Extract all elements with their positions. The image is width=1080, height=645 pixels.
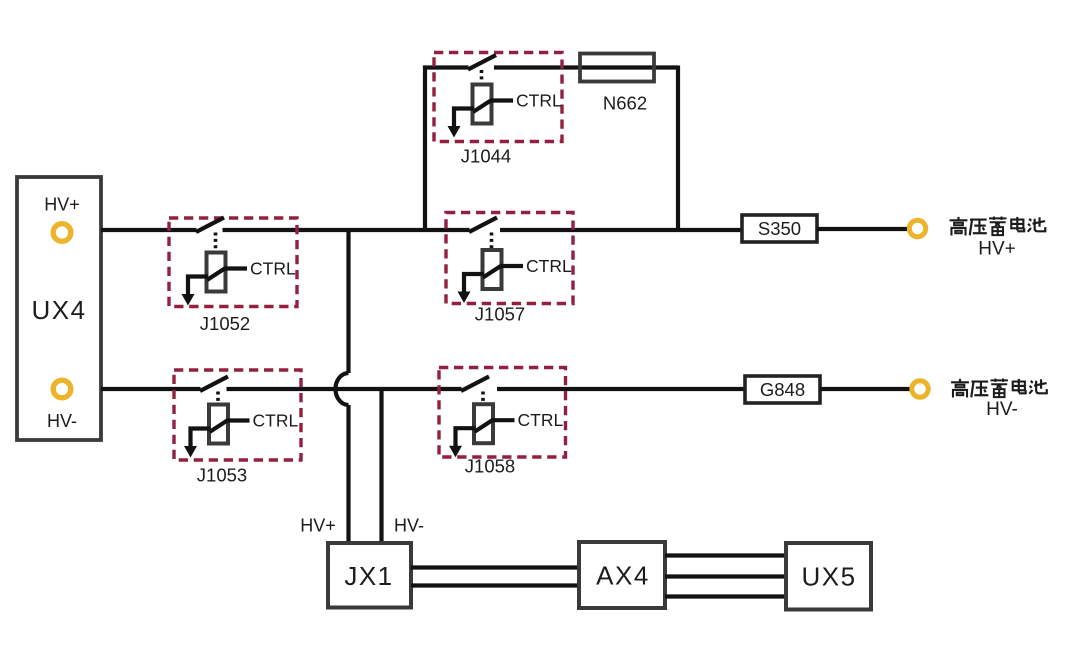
net label battery HV+ (Chinese: high-voltage battery): [950, 217, 1046, 236]
actuator dotted link J1052: [214, 233, 218, 252]
coil diagonal J1044: [473, 100, 492, 112]
CTRL pin wire J1058: [493, 418, 515, 422]
svg-text:HV+: HV+: [300, 516, 336, 536]
wire HV- bus: J1058 to G848: [497, 387, 745, 391]
CTRL pin wire J1052: [225, 266, 247, 270]
actuator dotted link J1058: [481, 392, 485, 404]
wire precharge branch left vertical (node at HV+ bus x=425): [425, 68, 469, 231]
connector UX4: [17, 177, 101, 440]
svg-text:CTRL: CTRL: [518, 410, 564, 430]
actuator dotted link J1057: [490, 233, 494, 250]
wire hop (crossover, no connection) over HV- bus: [336, 373, 349, 405]
dashed outline J1044: [434, 53, 562, 142]
switch blade J1052: [196, 218, 224, 233]
svg-text:HV-: HV-: [47, 411, 77, 431]
svg-text:CTRL: CTRL: [250, 259, 296, 279]
ground arrow J1058: [449, 446, 462, 458]
switch blade J1053: [200, 377, 228, 392]
wire precharge branch right vertical to HV+ bus: [676, 66, 680, 231]
terminal battery HV+: [909, 220, 925, 236]
ground wire J1053: [191, 429, 211, 448]
ground wire J1044: [454, 109, 474, 128]
relay J1052 (contactor): [169, 218, 297, 307]
relay J1057 (contactor): [446, 213, 573, 304]
ground wire J1057: [464, 274, 484, 293]
wire JX1 to AX4 (lower): [411, 583, 579, 587]
dashed outline J1053: [174, 370, 301, 460]
switch blade J1058: [461, 377, 489, 392]
wire HV+ drop from bus to JX1 (upper part): [346, 230, 350, 373]
wire JX1 to AX4 (upper): [411, 565, 579, 569]
component box S350: [742, 215, 817, 242]
CTRL pin wire J1057: [501, 264, 523, 268]
coil diagonal J1053: [210, 420, 229, 432]
wire HV+ bus: UX4 to J1052 switch: [101, 228, 197, 232]
coil J1053: [209, 405, 228, 444]
coil diagonal J1057: [483, 266, 502, 278]
module AX4: [579, 542, 665, 608]
coil diagonal J1058: [475, 420, 494, 432]
connector UX5: [786, 543, 871, 610]
svg-text:UX4: UX4: [31, 295, 86, 325]
relay J1053 (contactor): [174, 370, 301, 460]
svg-text:UX5: UX5: [801, 562, 856, 592]
dashed outline J1058: [439, 368, 566, 458]
wire HV- bus: J1053 to J1058 switch: [227, 387, 462, 391]
wire precharge branch: J1044 switch to fuse N662: [494, 65, 678, 69]
dashed outline J1057: [446, 213, 573, 304]
terminal battery HV-: [912, 381, 928, 397]
coil J1057: [483, 250, 502, 289]
svg-text:HV-: HV-: [394, 516, 424, 536]
terminal HV- of UX4: [53, 380, 71, 398]
ground wire J1052: [188, 277, 208, 296]
component box G848: [745, 376, 820, 403]
svg-text:J1058: J1058: [465, 456, 515, 477]
svg-text:HV-: HV-: [986, 399, 1018, 420]
actuator dotted link J1044: [480, 70, 484, 84]
relay J1044 (contactor): [434, 53, 562, 142]
coil J1058: [474, 404, 493, 443]
wire HV+ drop from hop to JX1: [346, 405, 350, 545]
wire HV- drop from bus to JX1: [379, 389, 383, 545]
svg-text:AX4: AX4: [596, 561, 650, 591]
CTRL pin wire J1053: [228, 418, 250, 422]
svg-text:CTRL: CTRL: [253, 411, 299, 431]
wire AX4 to UX5 (top): [665, 553, 786, 557]
net label battery HV- (Chinese: high-voltage battery): [951, 379, 1047, 398]
connector JX1: [328, 543, 411, 608]
relay J1058 (contactor): [439, 368, 566, 458]
wire HV+ bus: J1057 to fuse box S350: [500, 228, 742, 232]
svg-text:J1044: J1044: [461, 146, 511, 167]
switch blade J1057: [469, 218, 497, 233]
wire G848 to battery HV- terminal: [820, 387, 910, 391]
svg-text:J1057: J1057: [475, 304, 525, 325]
ground arrow J1052: [182, 294, 195, 306]
svg-text:CTRL: CTRL: [516, 91, 562, 111]
wire AX4 to UX5 (bottom): [665, 594, 786, 598]
svg-text:J1052: J1052: [200, 313, 250, 334]
svg-text:G848: G848: [760, 379, 805, 400]
svg-text:JX1: JX1: [344, 561, 393, 591]
CTRL pin wire J1044: [491, 98, 513, 102]
svg-text:S350: S350: [758, 218, 801, 239]
fuse N662: [580, 54, 654, 82]
ground wire J1058: [456, 428, 476, 447]
wire AX4 to UX5 (middle): [665, 574, 786, 578]
wire HV+ bus: J1052 to J1057 switch: [223, 228, 470, 232]
ground arrow J1053: [184, 446, 197, 458]
svg-text:CTRL: CTRL: [526, 256, 572, 276]
dashed outline J1052: [169, 218, 297, 307]
svg-text:N662: N662: [603, 93, 647, 114]
coil diagonal J1052: [207, 268, 226, 280]
svg-text:HV+: HV+: [44, 195, 80, 215]
wire HV- bus: UX4 to J1053 switch: [101, 387, 201, 391]
ground arrow J1057: [458, 292, 471, 304]
coil J1044: [473, 85, 492, 124]
svg-text:HV+: HV+: [978, 239, 1016, 260]
svg-text:J1053: J1053: [197, 465, 247, 486]
ground arrow J1044: [448, 126, 461, 138]
coil J1052: [207, 253, 226, 292]
switch blade J1044: [468, 55, 496, 70]
terminal HV+ of UX4: [53, 224, 71, 242]
wire S350 to battery HV+ terminal: [817, 227, 907, 231]
actuator dotted link J1053: [216, 392, 220, 404]
